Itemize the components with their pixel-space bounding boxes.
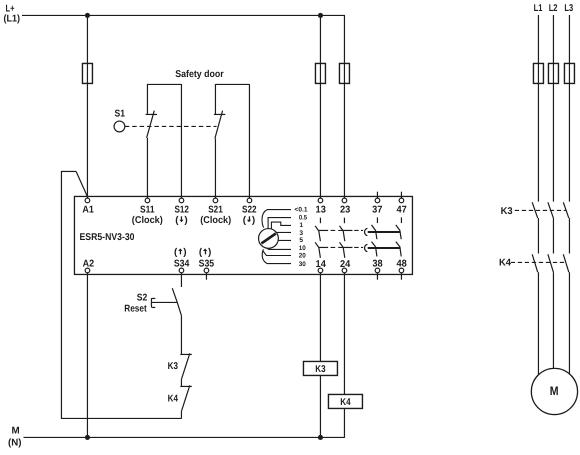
svg-text:24: 24 [340, 259, 351, 270]
svg-text:K4: K4 [499, 257, 512, 268]
svg-text:K4: K4 [168, 394, 179, 405]
svg-text:20: 20 [299, 253, 306, 260]
svg-text:L1: L1 [534, 3, 543, 14]
svg-text:0.5: 0.5 [299, 214, 307, 221]
svg-text:13: 13 [316, 205, 327, 216]
svg-text:M: M [550, 384, 559, 398]
svg-text:A2: A2 [83, 259, 95, 270]
svg-text:37: 37 [372, 205, 383, 216]
svg-text:Reset: Reset [124, 304, 147, 315]
svg-text:38: 38 [372, 259, 383, 270]
svg-text:3: 3 [299, 230, 303, 237]
svg-text:): ) [252, 215, 255, 226]
svg-text:(L1): (L1) [4, 13, 21, 24]
svg-text:(Clock): (Clock) [200, 215, 231, 226]
svg-text:10: 10 [299, 245, 306, 252]
svg-text:23: 23 [340, 205, 351, 216]
svg-text:48: 48 [396, 259, 407, 270]
svg-text:5: 5 [299, 237, 303, 244]
svg-text:30: 30 [299, 261, 306, 268]
svg-text:): ) [184, 215, 187, 226]
svg-text:S2: S2 [137, 293, 148, 304]
svg-text:K3: K3 [315, 364, 326, 375]
svg-text:Safety door: Safety door [175, 69, 224, 80]
svg-text:S35: S35 [199, 259, 215, 270]
svg-text:<0.1: <0.1 [295, 206, 308, 213]
svg-text:): ) [183, 247, 186, 258]
svg-text:): ) [208, 247, 211, 258]
svg-text:K3: K3 [168, 361, 179, 372]
svg-text:(N): (N) [8, 437, 22, 448]
svg-text:S1: S1 [115, 109, 126, 120]
svg-text:14: 14 [316, 259, 327, 270]
svg-text:L3: L3 [564, 3, 573, 14]
svg-text:47: 47 [396, 205, 407, 216]
svg-text:M: M [12, 426, 20, 437]
svg-text:K3: K3 [501, 206, 514, 217]
svg-text:S34: S34 [174, 259, 190, 270]
svg-text:(Clock): (Clock) [132, 215, 163, 226]
svg-text:1: 1 [299, 222, 303, 229]
svg-text:A1: A1 [82, 205, 94, 216]
svg-text:L2: L2 [549, 3, 558, 14]
svg-text:K4: K4 [340, 397, 351, 408]
svg-text:ESR5-NV3-30: ESR5-NV3-30 [80, 232, 135, 243]
